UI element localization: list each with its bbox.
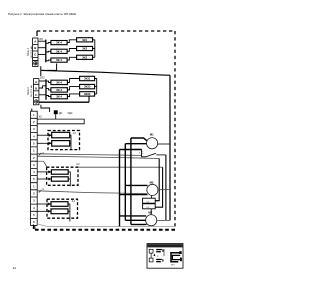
terminal strip X1 [31, 111, 38, 225]
block 2 phase wires [39, 81, 46, 95]
legend thin vertical [163, 249, 165, 256]
M2 entry wires [120, 185, 148, 194]
capacitor right stubs [155, 200, 159, 202]
motor M2 [147, 184, 158, 195]
block 1 vertical feed bus [45, 40, 47, 63]
faint fold line [37, 224, 174, 227]
svg-text:ЭК-4: ЭК-4 [56, 95, 62, 99]
svg-text:ЭК-4: ЭК-4 [56, 41, 62, 45]
burner 2 bracket [68, 172, 70, 186]
legend link line [150, 253, 152, 258]
motor M1 [147, 138, 158, 149]
capacitor chain stubs [150, 196, 152, 215]
M3 output wire [157, 219, 170, 221]
M1 output wire [158, 143, 170, 145]
connector block 2 [34, 79, 39, 105]
right vertical v2p [155, 167, 162, 207]
wire from burner2 top to right vertical [78, 166, 163, 168]
burner 1 element a [52, 132, 70, 138]
legend header bar [148, 244, 183, 247]
svg-text:Блок 2: Блок 2 [27, 87, 30, 95]
wire strip to burner 2 corner [37, 161, 47, 167]
svg-text:ЭК-4: ЭК-4 [56, 58, 62, 62]
legend socket square 2 [149, 258, 153, 262]
burner 1 element b [52, 141, 70, 147]
block 2 rotated label [27, 85, 33, 97]
svg-text:ЭК-4: ЭК-4 [56, 49, 62, 53]
burner 2 element b [51, 177, 68, 181]
legend plug glyph row 2 [156, 259, 163, 263]
svg-text:ЗН: ЗН [39, 38, 43, 41]
burner unit 3 dashed box [47, 199, 78, 218]
svg-text:ЭК-4: ЭК-4 [56, 80, 62, 84]
burner 2 element a [51, 170, 68, 174]
block 2 vertical feed bus [45, 79, 47, 99]
thermal cutoff DO [54, 110, 73, 119]
svg-text:В: В [34, 46, 36, 50]
connector block 1 [33, 38, 38, 67]
legend plug glyph row 1 [156, 249, 163, 253]
block 1 phase wires [38, 41, 46, 54]
burner 3 element a [51, 202, 68, 207]
capacitor C2 [143, 204, 156, 209]
bus vertical right [169, 75, 171, 220]
svg-text:ЭК-7/2,5 кВт: ЭК-7/2,5 кВт [31, 85, 33, 97]
burner 1 bracket [70, 135, 71, 149]
thermal switch t,C [139, 150, 166, 157]
wire break mark 2 [39, 189, 45, 193]
block 1 box hooks [46, 43, 51, 61]
strip bottom stub [34, 225, 36, 229]
svg-text:М3: М3 [148, 211, 152, 215]
panel dashed border [33, 31, 175, 230]
motor feed vertical v1 [119, 150, 121, 227]
block 1 neutral link [41, 64, 57, 77]
burner unit 1 dashed box [48, 131, 80, 150]
M2 output wire [158, 189, 170, 191]
block 2 ground drop [41, 105, 50, 112]
block 1 heater boxes left column [51, 41, 67, 63]
svg-text:ЭК-4: ЭК-4 [56, 88, 62, 92]
right vertical v3p [165, 155, 167, 221]
right vertical v1p [155, 159, 159, 201]
block 1 inter-column links [67, 40, 77, 60]
block 1 ground symbol [34, 62, 37, 65]
burner 3 feed wires [37, 203, 50, 212]
legend arrow [153, 254, 155, 257]
burner 3 element b [51, 209, 68, 214]
svg-text:ЭК32: ЭК32 [84, 92, 91, 96]
legend plug icon pins [179, 251, 182, 261]
motor M3 [146, 215, 157, 226]
block 2 inter-column links [67, 79, 79, 97]
svg-text:Рисунок 1. Электрическая схема: Рисунок 1. Электрическая схема плиты ЭП-… [8, 12, 76, 16]
legend box [147, 244, 183, 269]
block 1 heater boxes right column [77, 38, 93, 60]
wire to motor M2 [37, 191, 147, 194]
block 2 neutral thick wire [39, 96, 89, 102]
svg-text:t,°С: t,°С [139, 152, 143, 155]
svg-text:М1: М1 [150, 132, 154, 136]
svg-text:УСЛОВНЫЕ ОБОЗНАЧЕНИЯ НА СХЕМЕ: УСЛОВНЫЕ ОБОЗНАЧЕНИЯ НА СХЕМЕ [148, 245, 182, 248]
svg-text:ЭК31: ЭК31 [84, 77, 91, 81]
wire break mark 1 [39, 153, 45, 155]
block 2 ground symbol [35, 100, 38, 103]
svg-text:14: 14 [13, 266, 17, 270]
block 2 heater boxes left column [51, 80, 68, 99]
svg-text:ЭК3: ЭК3 [82, 55, 88, 59]
svg-text:М2: М2 [150, 180, 154, 184]
strip top tick [31, 109, 33, 112]
M3 entry wires [120, 216, 147, 225]
M1 entry wires [120, 138, 147, 150]
legend plug icon outer [171, 253, 180, 262]
burner 2 feed wires [37, 171, 51, 180]
block 2 heater boxes right column [80, 76, 95, 96]
block 2 right bracket [95, 79, 97, 94]
main neutral bus [41, 70, 170, 75]
svg-text:В: В [35, 86, 37, 90]
capacitor C1 [143, 198, 156, 203]
svg-text:ХР1: ХР1 [171, 264, 175, 266]
block 2 box hooks [46, 81, 51, 97]
legend socket square 1 [149, 249, 153, 253]
block 1 rotated label [27, 46, 33, 58]
burner 1 feed wires with arrows [37, 134, 51, 144]
svg-text:ОДС: ОДС [68, 113, 73, 115]
svg-text:Блок 1: Блок 1 [27, 48, 30, 56]
strip wires pair to motor bank [37, 154, 159, 159]
oven pilot circuit wires pins 1-2 [37, 119, 84, 124]
motor feed vertical v3 [130, 138, 132, 225]
burner unit 2 dashed box [47, 167, 78, 185]
burner 3 bracket [68, 204, 70, 222]
svg-text:ЭК2: ЭК2 [82, 47, 88, 51]
motor feed vertical v2 [124, 144, 126, 221]
svg-text:ЭК33: ЭК33 [84, 85, 91, 89]
svg-text:ЭК1: ЭК1 [82, 38, 88, 42]
block 1 right bracket [93, 40, 95, 58]
svg-text:2ЛЗ: 2ЛЗ [40, 76, 45, 79]
svg-text:ДО: ДО [59, 113, 63, 115]
